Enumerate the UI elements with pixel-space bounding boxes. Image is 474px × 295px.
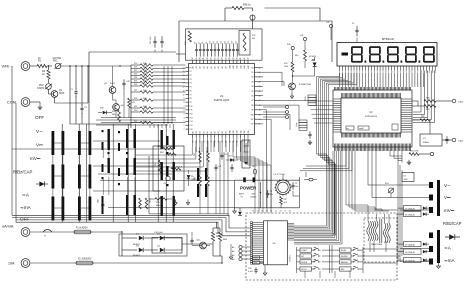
svg-text:D9 1N4148: D9 1N4148 xyxy=(405,260,415,262)
diode group D8 1N4148 xyxy=(404,249,422,254)
svg-text:B12: B12 xyxy=(237,130,239,133)
svg-text:TAIKOTRA: TAIKOTRA xyxy=(371,243,382,246)
svg-text:A14: A14 xyxy=(243,65,246,68)
U2 left pins hatch xyxy=(334,98,342,100)
svg-text:C6L: C6L xyxy=(155,163,157,166)
shield box outline xyxy=(89,52,176,152)
resistor R2 vertical xyxy=(48,66,50,70)
svg-text:x4: x4 xyxy=(270,211,272,213)
svg-text:R68: R68 xyxy=(194,177,196,180)
svg-text:13: 13 xyxy=(183,83,185,85)
resistor R60 680k xyxy=(145,198,148,209)
wire power to keypad xyxy=(250,202,252,204)
resistor R68 xyxy=(199,175,202,186)
wire J1 to R1 xyxy=(30,65,37,67)
pad P3 REL xyxy=(239,253,242,256)
rotary switch wafer SW1H contacts xyxy=(134,129,136,148)
jack J2 COM xyxy=(21,98,30,107)
capacitor C32 power xyxy=(267,190,269,193)
connector CN2 4pin xyxy=(299,120,307,123)
svg-text:S9: S9 xyxy=(251,110,253,112)
svg-text:x6: x6 xyxy=(280,211,282,213)
svg-text:B5: B5 xyxy=(211,131,213,133)
svg-text:23: 23 xyxy=(211,58,213,60)
svg-text:A0: A0 xyxy=(191,66,194,68)
svg-text:C3: C3 xyxy=(295,183,297,185)
svg-text:V/R/→: V/R/→ xyxy=(2,64,14,69)
svg-text:R26: R26 xyxy=(134,84,137,86)
wire power bottom rail xyxy=(235,207,300,209)
fuse holder arc xyxy=(43,230,52,233)
svg-text:S7: S7 xyxy=(251,100,253,102)
svg-text:13: 13 xyxy=(409,72,411,74)
wire RV2 to Q1 xyxy=(48,89,50,94)
wire F2 right xyxy=(93,262,222,264)
U2 body xyxy=(341,98,401,133)
wire U1 right selected runs xyxy=(263,72,282,86)
svg-text:≂A: ≂A xyxy=(444,245,451,250)
svg-text:A15: A15 xyxy=(247,65,250,68)
wire shunts xyxy=(213,227,220,229)
fuse F2 xyxy=(76,261,93,265)
svg-text:D13: D13 xyxy=(228,156,231,158)
svg-text:R40: R40 xyxy=(287,44,290,46)
shunt R05 0.05R xyxy=(212,228,214,232)
svg-text:C11: C11 xyxy=(213,41,215,44)
svg-text:B10: B10 xyxy=(229,130,231,133)
ground right side xyxy=(408,160,410,162)
svg-text:≂mA: ≂mA xyxy=(20,205,32,210)
svg-text:5: 5 xyxy=(362,72,363,74)
transistor Q1 protection xyxy=(51,91,58,98)
svg-text:311k: 311k xyxy=(143,121,147,123)
svg-text:RANGE: RANGE xyxy=(341,261,349,264)
svg-text:A3: A3 xyxy=(202,66,205,68)
svg-text:osc: osc xyxy=(347,128,350,130)
bridge sub box xyxy=(152,238,182,254)
svg-text:C401: C401 xyxy=(458,102,464,104)
svg-text:32: 32 xyxy=(244,58,246,60)
wire U1 bottom staircase right xyxy=(233,141,255,213)
svg-text:A1: A1 xyxy=(195,66,198,68)
svg-text:C9: C9 xyxy=(206,42,208,44)
wire loop display right to U2 right pins xyxy=(413,71,421,113)
capacitor C1 on input xyxy=(75,88,77,92)
keypad interface dashed box xyxy=(246,213,397,280)
svg-text:V∼: V∼ xyxy=(36,129,43,134)
diode group D9 1N4148 xyxy=(404,258,422,263)
svg-text:C16: C16 xyxy=(232,41,234,44)
rotary switch wafer SW1C2 contacts xyxy=(89,131,92,155)
resistor R68b xyxy=(207,175,210,186)
wire buttons to rotary bus xyxy=(363,248,398,250)
svg-text:RV1: RV1 xyxy=(53,60,58,63)
wire rotary rows long xyxy=(368,151,400,185)
component PWM box xyxy=(253,256,260,259)
svg-text:A5: A5 xyxy=(210,66,213,68)
LCD display DS1 MT50LCD xyxy=(337,43,437,67)
svg-text:C14: C14 xyxy=(224,41,226,44)
svg-text:C26: C26 xyxy=(248,268,251,270)
svg-text:680uF: 680uF xyxy=(156,205,162,207)
keypad U6 right pin comb xyxy=(288,223,295,225)
wire switch ladder horizontals xyxy=(101,117,176,119)
button HOLD xyxy=(300,267,312,271)
jack J4 10A xyxy=(21,259,30,268)
svg-text:R20: R20 xyxy=(134,63,137,65)
regulator circle VR1 xyxy=(166,176,170,180)
svg-text:A2: A2 xyxy=(199,66,202,68)
rotary contact V= xyxy=(429,195,433,201)
svg-text:R21: R21 xyxy=(134,67,137,69)
wire U2 bottom to right bus xyxy=(390,151,402,156)
buzzer LS1 TCYL10 xyxy=(276,180,290,194)
svg-text:308k: 308k xyxy=(143,98,147,100)
wire analog rail xyxy=(149,213,229,215)
transistor Q8 SS8550 xyxy=(289,83,296,90)
svg-text:R56 1k: R56 1k xyxy=(243,4,251,7)
label right diode symbol xyxy=(449,234,455,240)
wire F1 right xyxy=(91,231,122,233)
wire Q1 down xyxy=(54,97,56,103)
svg-text:C13: C13 xyxy=(221,41,223,44)
component VHD box xyxy=(253,261,260,264)
svg-text:x1: x1 xyxy=(257,211,259,213)
svg-text:S3: S3 xyxy=(251,81,253,83)
wire U2 bottom to transformer xyxy=(346,151,368,211)
svg-text:B9: B9 xyxy=(226,131,228,133)
component box DQ1 xyxy=(402,173,414,182)
svg-text:OFF: OFF xyxy=(20,217,29,222)
svg-text:306k: 306k xyxy=(143,84,147,86)
svg-text:104: 104 xyxy=(295,186,298,188)
resistor R11 10M xyxy=(243,33,246,51)
wire right side xyxy=(412,100,418,102)
button HZ xyxy=(300,254,312,258)
wire buttons to diode bus xyxy=(304,271,306,278)
button MAX/MIN xyxy=(340,254,352,258)
svg-text:OFF: OFF xyxy=(35,115,44,120)
svg-text:CD4051: CD4051 xyxy=(290,255,292,262)
svg-text:V⎓: V⎓ xyxy=(444,195,451,200)
svg-text:304k: 304k xyxy=(143,77,147,79)
svg-text:MODE: MODE xyxy=(301,262,308,264)
pad connector mid xyxy=(309,178,313,181)
wire power top rail xyxy=(235,179,300,181)
svg-text:R70: R70 xyxy=(284,63,287,65)
svg-text:PWM: PWM xyxy=(254,258,259,260)
svg-text:12: 12 xyxy=(183,87,185,89)
capacitor C30 xyxy=(309,131,311,134)
rotary ground arrow xyxy=(438,263,440,266)
varistor RV1 CN/7N2 xyxy=(55,63,61,69)
resistor R83 xyxy=(409,153,419,156)
svg-text:LIGHT: LIGHT xyxy=(301,250,308,252)
svg-text:P11: P11 xyxy=(190,110,193,112)
svg-text:1: 1 xyxy=(184,129,185,131)
crystal box X1 xyxy=(420,134,442,146)
svg-text:P13: P13 xyxy=(190,117,193,119)
svg-text:A9: A9 xyxy=(225,66,228,68)
transformer box dashed xyxy=(364,218,397,262)
capacitor C43 above display xyxy=(356,26,358,31)
svg-text:C16 10uF: C16 10uF xyxy=(154,232,164,234)
resistor R63 xyxy=(166,153,176,156)
svg-text:R25: R25 xyxy=(134,81,137,83)
svg-text:≂A: ≂A xyxy=(22,193,30,198)
svg-text:x5: x5 xyxy=(275,211,277,213)
transistor Q6 protection xyxy=(113,104,120,111)
op-amp section box xyxy=(153,146,184,191)
svg-text:6: 6 xyxy=(184,110,185,112)
svg-text:10A: 10A xyxy=(8,262,15,266)
U2 top pin rows hatch xyxy=(334,87,336,91)
svg-text:MX/MN: MX/MN xyxy=(341,256,348,258)
capacitor C40 xyxy=(123,79,125,83)
wire bottom mid xyxy=(206,245,210,247)
svg-text:S11: S11 xyxy=(251,119,254,121)
capacitor C21 xyxy=(215,164,217,167)
svg-text:B15: B15 xyxy=(248,130,250,133)
svg-text:A6: A6 xyxy=(214,66,217,68)
svg-text:D5 1N4148: D5 1N4148 xyxy=(405,208,415,210)
wire ladder to switch xyxy=(149,124,151,128)
svg-text:uA/mA: uA/mA xyxy=(2,225,14,229)
svg-text:33: 33 xyxy=(248,58,250,60)
svg-text:X2: X2 xyxy=(352,23,354,25)
diode group D5 1N4148 xyxy=(404,206,422,211)
svg-text:BATT: BATT xyxy=(239,193,245,196)
svg-text:300k: 300k xyxy=(143,63,147,65)
ground shunt arrow xyxy=(230,254,232,257)
svg-text:P14: P14 xyxy=(190,121,193,123)
svg-text:≂mA: ≂mA xyxy=(444,258,455,263)
capacitor C44 top shield xyxy=(154,36,156,41)
svg-text:9M: 9M xyxy=(252,38,255,40)
diode D2 bridge xyxy=(144,237,158,239)
svg-text:F1 hLR20A: F1 hLR20A xyxy=(76,227,88,230)
wire switch feeds vertical xyxy=(61,124,63,222)
svg-text:C7: C7 xyxy=(198,42,200,44)
resistor R80 xyxy=(424,100,436,103)
wire main input to ladder xyxy=(88,65,131,67)
wire transformer leads xyxy=(367,211,369,221)
resistor R58 680k xyxy=(139,198,142,209)
rotary contact diode row xyxy=(429,233,433,239)
svg-text:C402: C402 xyxy=(458,141,464,143)
svg-text:6: 6 xyxy=(368,72,369,74)
svg-text:3: 3 xyxy=(351,72,352,74)
rotary switch wafer SW1E contacts xyxy=(108,129,110,150)
svg-text:B2: B2 xyxy=(200,131,202,133)
capacitor C16b xyxy=(191,237,193,240)
capacitor C31 right of buzzer xyxy=(292,182,294,185)
resistor ladder R20-R31 xyxy=(131,64,140,66)
svg-text:x8: x8 xyxy=(289,211,291,213)
svg-text:7: 7 xyxy=(184,106,185,108)
svg-text:D7 1N4148: D7 1N4148 xyxy=(405,244,415,246)
svg-text:CN/7N: CN/7N xyxy=(37,87,44,90)
svg-text:B14: B14 xyxy=(244,130,246,133)
svg-text:x2: x2 xyxy=(261,211,263,213)
svg-text:B7: B7 xyxy=(218,131,220,133)
ground COM xyxy=(39,105,41,107)
transistor Q12 xyxy=(200,242,207,249)
display digit 4 xyxy=(406,46,416,48)
wire U1 bottom drops xyxy=(192,138,194,148)
svg-text:P3: P3 xyxy=(190,79,192,81)
svg-text:302k: 302k xyxy=(143,70,147,72)
rotary switch wafer SW2B contacts xyxy=(173,130,175,149)
diode group D6 1N4148 xyxy=(404,212,422,217)
svg-text:8: 8 xyxy=(380,72,381,74)
resistor R70 xyxy=(291,62,294,72)
U2 inner small part xyxy=(392,124,398,130)
svg-text:A8: A8 xyxy=(221,66,224,68)
wire J3 to F1 xyxy=(30,231,74,233)
svg-text:22: 22 xyxy=(207,58,209,60)
svg-text:2: 2 xyxy=(184,125,185,127)
transformer T1 windings primary xyxy=(367,221,369,241)
rotary switch wafer SW1F contacts xyxy=(118,143,120,151)
svg-text:SW: SW xyxy=(252,194,255,196)
svg-text:P12: P12 xyxy=(190,114,193,116)
wire analog right verticals xyxy=(199,162,201,175)
svg-text:LS TCYL10: LS TCYL10 xyxy=(274,174,286,176)
wire U1 right long verticals to power xyxy=(263,110,267,208)
svg-text:HY100K: HY100K xyxy=(309,56,317,58)
wire RV1 right to node xyxy=(61,65,131,67)
svg-text:C7: C7 xyxy=(270,191,272,193)
svg-text:seg40: seg40 xyxy=(359,128,364,130)
svg-text:IN4007: IN4007 xyxy=(133,255,141,257)
svg-text:FS9704-LQFP: FS9704-LQFP xyxy=(214,99,230,102)
button MODE xyxy=(300,260,312,264)
svg-text:R6?: R6? xyxy=(284,199,287,201)
capacitor bank C6-C17 xyxy=(196,43,198,49)
svg-text:307k: 307k xyxy=(143,90,147,92)
svg-text:C12: C12 xyxy=(217,41,219,44)
crystal X1 caps xyxy=(446,136,448,139)
svg-text:C17: C17 xyxy=(235,41,237,44)
transformer T1 core xyxy=(379,219,381,243)
svg-text:100k: 100k xyxy=(284,66,288,68)
svg-text:B1: B1 xyxy=(196,131,198,133)
svg-text:15: 15 xyxy=(420,72,422,74)
svg-text:8: 8 xyxy=(184,102,185,104)
svg-text:C45 56uF: C45 56uF xyxy=(150,35,152,44)
display digit 3 xyxy=(388,46,398,48)
capacitor C26 keypad xyxy=(255,267,257,270)
svg-text:R23: R23 xyxy=(134,74,137,76)
rotary switch wafer SW3B contacts xyxy=(205,168,207,181)
wire top shield to U1 xyxy=(176,53,185,55)
svg-text:24: 24 xyxy=(214,58,216,60)
wire bridge out xyxy=(165,237,182,239)
transistor Q5 protection xyxy=(109,87,116,94)
U1 left pins xyxy=(186,67,189,69)
display pin comb xyxy=(339,66,341,71)
svg-text:S6: S6 xyxy=(251,96,253,98)
svg-text:A10: A10 xyxy=(228,65,231,68)
wire J4 to F2 xyxy=(30,262,76,264)
svg-text:R24: R24 xyxy=(134,77,137,79)
svg-text:0.1uF: 0.1uF xyxy=(248,271,254,273)
svg-text:305k: 305k xyxy=(143,81,147,83)
svg-text:7: 7 xyxy=(374,72,375,74)
wire input drops xyxy=(69,66,71,124)
svg-text:R28: R28 xyxy=(134,98,137,100)
svg-text:27: 27 xyxy=(225,58,227,60)
svg-text:S4: S4 xyxy=(251,86,253,88)
wire U2 left pins out xyxy=(308,100,334,102)
sub box R11 xyxy=(239,31,250,55)
box analog top outline xyxy=(179,21,332,62)
U2 right pins hatch xyxy=(401,98,412,100)
LCD driver IC U2 FS9704/DIS outer xyxy=(333,90,412,147)
wire rotary bus joins xyxy=(397,184,399,186)
svg-text:28: 28 xyxy=(229,58,231,60)
svg-text:680uF: 680uF xyxy=(150,197,152,203)
rotary switch wafer SW2A contacts xyxy=(161,130,163,149)
svg-text:303k: 303k xyxy=(143,74,147,76)
svg-text:R22: R22 xyxy=(134,70,137,72)
svg-text:P0: P0 xyxy=(190,67,192,69)
wire bus U1 right pins stubs xyxy=(258,67,264,69)
pad P1 HOLD xyxy=(239,245,242,248)
wire Q5 Q6 xyxy=(112,93,114,100)
svg-text:2: 2 xyxy=(345,72,346,74)
svg-text:B6: B6 xyxy=(215,131,217,133)
svg-text:P7: P7 xyxy=(190,94,192,96)
capacitor C22 xyxy=(221,152,223,155)
shunt R06 xyxy=(219,228,221,232)
svg-text:R58: R58 xyxy=(135,203,137,206)
svg-text:2K2: 2K2 xyxy=(284,202,287,204)
svg-text:MT50LCD: MT50LCD xyxy=(382,37,394,41)
keypad IC U6 body xyxy=(264,221,288,265)
svg-text:R63: R63 xyxy=(160,152,163,154)
svg-text:9014: 9014 xyxy=(59,92,65,95)
svg-text:R83 470k: R83 470k xyxy=(410,151,419,153)
svg-text:19: 19 xyxy=(196,58,198,60)
zener ZD LM385 xyxy=(188,170,190,174)
wire switch area to power rail xyxy=(100,180,235,182)
svg-text:301k: 301k xyxy=(143,67,147,69)
resistor R67 xyxy=(199,151,202,162)
diode symbol label xyxy=(39,181,44,186)
svg-text:16: 16 xyxy=(426,72,428,74)
svg-text:B0: B0 xyxy=(192,131,194,133)
rotary switch common bar lower xyxy=(437,230,440,263)
wire wafer pair links xyxy=(54,142,61,144)
rotary contact mA xyxy=(429,259,433,265)
svg-text:9014: 9014 xyxy=(110,83,116,85)
svg-text:S5: S5 xyxy=(251,91,253,93)
switch contact squares xyxy=(102,130,104,132)
capacitor C4 switch area xyxy=(102,200,104,204)
rotary switch wafer SW1A contacts xyxy=(52,131,55,155)
svg-text:P6: P6 xyxy=(190,90,192,92)
resistor R71 under TP2 xyxy=(304,50,307,61)
connector CN3 vertical xyxy=(242,140,250,168)
wire buttons grid xyxy=(296,247,298,273)
svg-text:mV⎓: mV⎓ xyxy=(30,156,41,161)
display digit 5 xyxy=(424,46,434,48)
svg-text:V∼: V∼ xyxy=(444,183,451,188)
capacitor C45 top shield xyxy=(161,36,163,41)
resistor R10 in cap box xyxy=(188,31,191,42)
